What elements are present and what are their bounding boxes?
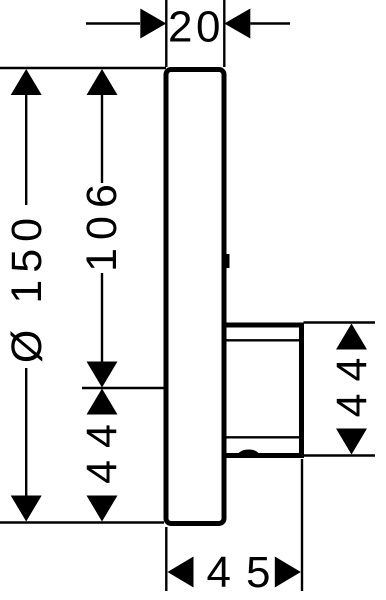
dimension 45: left extension line xyxy=(165,527,167,591)
handle inner step line upper xyxy=(227,339,300,341)
dimension 44 right: top arrow (points up) xyxy=(336,324,367,350)
dimension 45: right extension line xyxy=(301,459,303,591)
dimension 44 right: top extension line xyxy=(304,321,376,323)
dimension 106: top arrow (points up) xyxy=(87,69,118,95)
dimension 106: bottom arrow (points down) xyxy=(87,362,118,388)
svg-text:106: 106 xyxy=(78,176,126,272)
dimension 20: left arrow (points right) xyxy=(140,9,166,39)
dimension 20: right extension line xyxy=(223,0,225,67)
dimension 150: top arrow (points up) xyxy=(11,69,42,95)
dimension 45: right arrow (points right) xyxy=(275,557,301,588)
svg-text:44: 44 xyxy=(78,412,126,484)
dimension 106: lower line segment xyxy=(101,273,103,363)
dimension 44 left: bottom arrow (points down) xyxy=(87,496,118,522)
extension line bottom of plate (left, y=522.5) xyxy=(0,521,164,523)
handle top edge xyxy=(224,323,302,328)
svg-text:44: 44 xyxy=(328,346,376,418)
handle front face xyxy=(299,323,304,459)
dimension 150: lower line segment xyxy=(25,368,27,498)
dimension 20: left extension line xyxy=(165,0,167,67)
dimension 44 left: top arrow (points up) xyxy=(87,389,118,415)
mounting plate (side view, 20 x 150) xyxy=(166,70,224,524)
svg-text:20: 20 xyxy=(168,3,224,52)
dimension 20: right tail xyxy=(250,22,290,24)
svg-text:Ø 150: Ø 150 xyxy=(3,211,51,363)
dimension 45: left arrow (points left) xyxy=(168,557,194,588)
dimension 20: left tail xyxy=(86,22,140,24)
dimension 106: upper line segment xyxy=(101,94,103,183)
svg-text:45: 45 xyxy=(207,548,286,597)
handle lever bump xyxy=(235,450,262,458)
cartridge nub on plate right edge xyxy=(226,254,230,268)
extension line valve axis (y=388) xyxy=(82,387,165,389)
dimension 150: upper line segment xyxy=(25,94,27,205)
handle inner step line lower xyxy=(227,436,300,438)
dimension 150: bottom arrow (points down) xyxy=(11,496,42,522)
dimension 20: right arrow (points left) xyxy=(224,9,250,39)
extension line top of plate (left, y=68) xyxy=(0,67,166,69)
dimension 44 right: bottom extension line xyxy=(304,454,376,456)
handle bottom edge xyxy=(224,453,302,458)
dimension 44 right: bottom arrow (points down) xyxy=(336,429,367,455)
